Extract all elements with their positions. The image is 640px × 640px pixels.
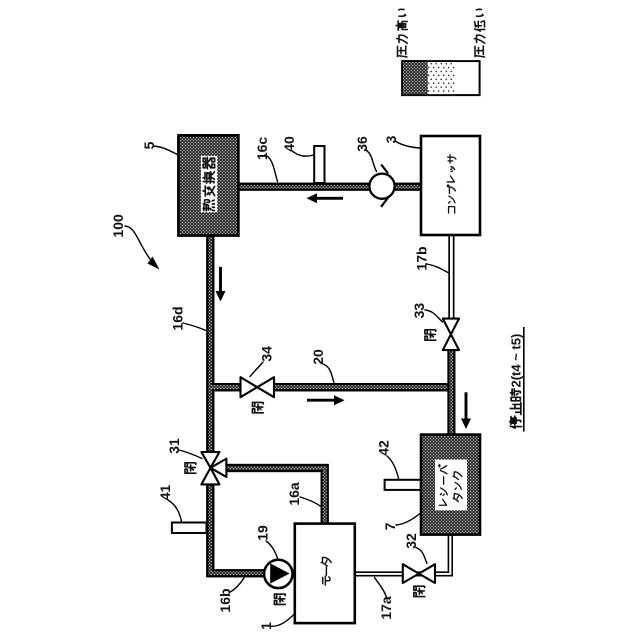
svg-text:16d: 16d: [170, 306, 186, 330]
svg-text:3: 3: [383, 135, 399, 143]
svg-text:36: 36: [354, 136, 370, 152]
svg-text:16b: 16b: [217, 588, 233, 612]
svg-text:19: 19: [255, 525, 271, 541]
svg-text:5: 5: [141, 141, 157, 149]
svg-text:7: 7: [382, 522, 398, 530]
svg-text:17b: 17b: [414, 246, 430, 270]
svg-text:17a: 17a: [378, 596, 394, 620]
svg-text:31: 31: [166, 438, 182, 454]
svg-text:16a: 16a: [286, 482, 302, 506]
svg-text:42: 42: [376, 440, 392, 456]
svg-text:2(t4 ~ t5): 2(t4 ~ t5): [509, 334, 524, 388]
svg-text:32: 32: [403, 533, 419, 549]
svg-text:40: 40: [281, 136, 297, 152]
svg-text:100: 100: [110, 214, 126, 238]
svg-text:34: 34: [259, 346, 275, 362]
svg-text:16c: 16c: [254, 137, 270, 161]
svg-text:20: 20: [310, 349, 326, 365]
svg-text:33: 33: [411, 303, 427, 319]
svg-text:41: 41: [157, 485, 173, 501]
svg-text:1: 1: [258, 622, 274, 630]
